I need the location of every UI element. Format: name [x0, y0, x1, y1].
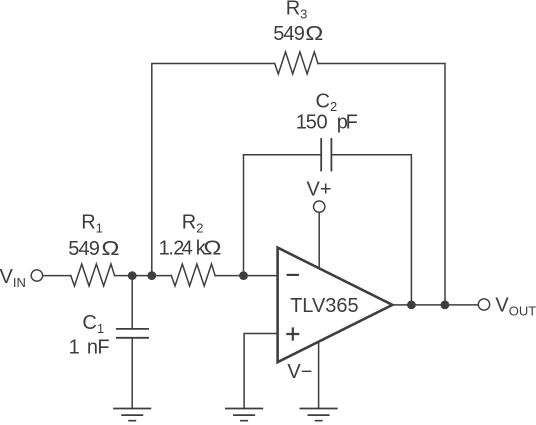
svg-text:V−: V− — [287, 361, 312, 383]
svg-text:549: 549 — [273, 23, 305, 45]
svg-text:1.24 k: 1.24 k — [159, 237, 207, 259]
svg-text:549: 549 — [68, 238, 100, 260]
svg-text:TLV365: TLV365 — [290, 295, 359, 317]
svg-text:1 nF: 1 nF — [69, 336, 110, 358]
svg-text:Ω: Ω — [305, 22, 323, 45]
svg-text:Ω: Ω — [203, 236, 221, 259]
svg-text:V+: V+ — [307, 178, 332, 200]
svg-text:Ω: Ω — [101, 237, 119, 260]
svg-text:150 pF: 150 pF — [296, 112, 358, 134]
